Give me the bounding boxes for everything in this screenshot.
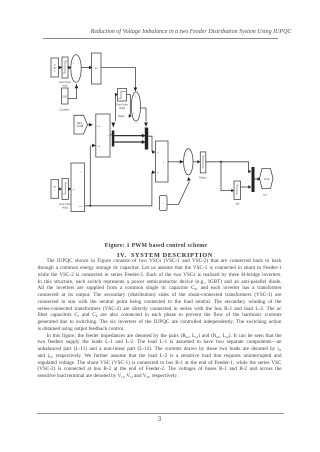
svg-text:In2: In2 (98, 146, 102, 148)
svg-text:In1: In1 (98, 126, 102, 128)
svg-text:Vab: Vab (53, 187, 58, 189)
svg-text:In: In (157, 153, 159, 155)
svg-text:In: In (73, 189, 75, 191)
svg-text:x: x (81, 172, 83, 174)
svg-text:+: + (185, 154, 187, 157)
svg-text:rad: rad (236, 203, 240, 206)
svg-text:Constant: Constant (59, 109, 69, 112)
svg-text:Zero-Order: Zero-Order (59, 203, 71, 206)
svg-text:Relay: Relay (118, 115, 125, 118)
svg-text:VCAB: VCAB (77, 125, 84, 128)
svg-text:500: 500 (63, 95, 68, 99)
svg-text:+: + (186, 169, 188, 172)
svg-text:+: + (133, 112, 135, 115)
svg-text:Hold: Hold (63, 84, 69, 87)
svg-text:Relay1: Relay1 (199, 177, 207, 180)
svg-text:Hold1: Hold1 (119, 107, 126, 110)
svg-text:bc1: bc1 (263, 195, 267, 197)
svg-text:+: + (135, 95, 137, 98)
svg-text:In: In (157, 173, 159, 175)
svg-text:~: ~ (162, 202, 164, 205)
svg-text:+: + (73, 62, 75, 65)
svg-text:1: 1 (54, 190, 56, 192)
svg-text:−: − (76, 76, 78, 79)
svg-text:O: O (107, 136, 109, 138)
svg-text:VCab: VCab (264, 179, 270, 181)
svg-text:x: x (163, 162, 165, 164)
svg-text:Hold2: Hold2 (62, 207, 69, 210)
svg-text:PI: PI (95, 67, 98, 71)
svg-text:out: out (79, 205, 82, 208)
